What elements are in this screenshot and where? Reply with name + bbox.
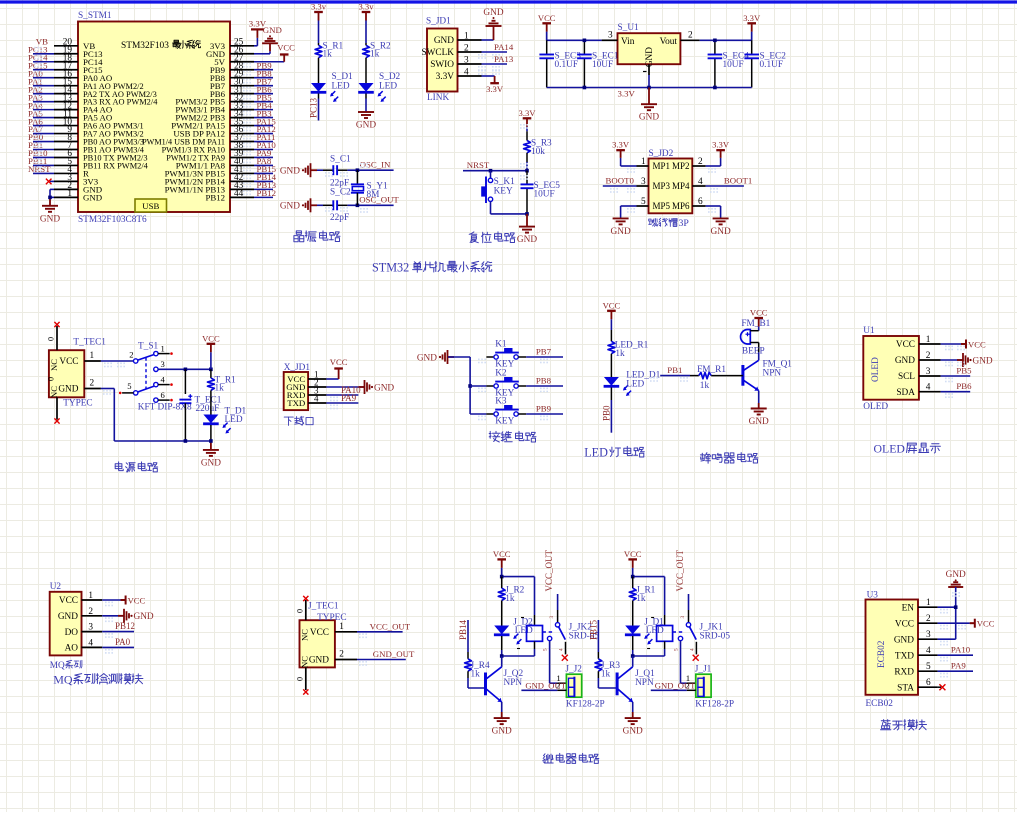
led J_D1 (632, 612, 634, 626)
mcu U S_STM1 body (78, 22, 230, 213)
title relay circuit (544, 754, 546, 756)
svg-text:SCL: SCL (898, 372, 915, 382)
svg-text:LED: LED (225, 415, 243, 425)
ground for mcu pins 1-2 (42, 205, 58, 207)
wire + net label PA4 (left pin 12) (33, 109, 54, 111)
ground right of mq (118, 615, 124, 617)
key switch K1 (486, 356, 494, 358)
resistor T_R1 1k (210, 369, 212, 378)
svg-text:5: 5 (543, 648, 549, 651)
power 3.3V right of regulator (747, 22, 756, 24)
svg-text:KEY: KEY (494, 186, 513, 196)
svg-text:VCC: VCC (603, 300, 621, 310)
svg-text:MP2: MP2 (672, 161, 690, 171)
ground below regulator (648, 88, 650, 105)
label jumper 3P (649, 219, 651, 221)
wire + net label PB5 (right pin 32) (254, 101, 273, 103)
svg-text:TXD: TXD (287, 398, 305, 408)
wire + net label PB14 (right pin 42) (254, 180, 273, 182)
svg-text:VCC_OUT: VCC_OUT (370, 622, 411, 632)
svg-text:J_J1: J_J1 (695, 665, 712, 675)
svg-text:NPN: NPN (763, 369, 782, 379)
svg-text:PB5: PB5 (956, 366, 972, 376)
svg-text:PA9: PA9 (341, 393, 357, 403)
wire base J_R4 (467, 678, 469, 688)
svg-text:4: 4 (926, 646, 931, 656)
svg-text:RXD: RXD (894, 667, 914, 677)
capacitor S_EC4 10UF (714, 40, 716, 54)
svg-text:4: 4 (464, 68, 469, 78)
wire + net label PB9 (526, 413, 563, 415)
ground above S_JD1 pin1 (493, 26, 495, 33)
wire bottom rail (547, 87, 752, 89)
svg-text:USB: USB (142, 201, 159, 211)
ground buzzer (758, 403, 760, 409)
svg-text:44: 44 (234, 189, 244, 199)
wire + net label PC14 (left pin 18) (33, 61, 54, 63)
wire X_JD1 pin1 to VCC (326, 378, 338, 380)
mq U2 body (50, 592, 82, 656)
wire + net label PA6 (left pin 10) (33, 125, 54, 127)
wire led/coil bottom join J_R2 (501, 650, 503, 656)
key switch K3 (470, 413, 486, 415)
svg-text:PB15: PB15 (588, 619, 598, 640)
svg-text:K1: K1 (495, 339, 507, 349)
svg-text:4: 4 (88, 638, 93, 648)
svg-text:K3: K3 (495, 396, 507, 406)
svg-text:PB11 RX PWM2/4: PB11 RX PWM2/4 (83, 162, 149, 171)
svg-text:GND: GND (895, 356, 915, 366)
relay coil J_JK1 SRD-05 (664, 615, 666, 626)
net label BOOT1 (706, 185, 744, 187)
transistor J_Q2 NPN (484, 673, 487, 696)
ground right of X_JD1 (359, 386, 365, 388)
svg-text:10UF: 10UF (534, 189, 555, 199)
svg-text:2: 2 (926, 614, 931, 624)
wire + net label PA8 (right pin 40) (254, 164, 273, 166)
net label PB12 wire (102, 631, 134, 633)
svg-text:PB12: PB12 (115, 621, 135, 631)
power VCC led circuit (607, 310, 616, 312)
svg-text:3: 3 (88, 623, 93, 633)
svg-text:GND: GND (973, 356, 993, 366)
svg-text:S_JD2: S_JD2 (649, 149, 674, 159)
power VCC relay J_R1 (628, 558, 637, 560)
power VCC for T_R1 (207, 343, 216, 345)
svg-text:SDA: SDA (896, 388, 915, 398)
svg-text:AO: AO (65, 644, 79, 654)
button bus wire (469, 357, 471, 414)
svg-text:22pF: 22pF (330, 213, 349, 223)
svg-text:TYPEC: TYPEC (63, 398, 92, 408)
svg-text:1k: 1k (615, 349, 625, 359)
svg-text:BOOT0: BOOT0 (606, 176, 635, 186)
svg-text:5: 5 (674, 648, 680, 651)
svg-text:3: 3 (926, 367, 931, 377)
junction dots regulator rails (583, 39, 587, 43)
svg-text:GND: GND (134, 612, 154, 622)
wire S_R1 to S_D1 (318, 60, 320, 79)
wire + net label PB7 (526, 356, 563, 358)
wire + net label PC13 (left pin 19) (33, 53, 54, 55)
svg-text:220uF: 220uF (196, 404, 220, 414)
svg-text:GND: GND (946, 570, 966, 580)
svg-text:1: 1 (339, 622, 344, 632)
wire bt EN/GND to ground (955, 587, 957, 639)
J_TEC1 bottom pin 0 (305, 667, 307, 690)
svg-text:S_C1: S_C1 (330, 155, 351, 165)
resistor FM_R1 1k (690, 375, 699, 377)
svg-text:NPN: NPN (504, 678, 523, 688)
svg-text:VCC: VCC (128, 595, 146, 605)
T_TEC1 top pin 0 (56, 326, 58, 350)
ground power circuit (210, 441, 212, 450)
svg-text:STM32F103: STM32F103 (121, 41, 169, 51)
svg-text:T_TEC1: T_TEC1 (73, 337, 106, 347)
svg-text:PB1: PB1 (667, 365, 682, 375)
ground relay J_Q1 (625, 717, 641, 719)
net label PA9 (bt) (938, 670, 973, 672)
wire + net label PA5 (left pin 11) (33, 117, 54, 119)
crystal S_Y1 8M (356, 170, 358, 184)
svg-text:4: 4 (559, 648, 565, 651)
power 3.3v for S_R2 (362, 11, 371, 13)
wire mq pin2 to GND (102, 615, 124, 617)
net label PA14 wire (482, 51, 508, 53)
svg-text:GND: GND (263, 25, 282, 35)
J_TEC1 pin1 VCC_OUT (335, 631, 357, 633)
wire + net label PA11 (right pin 37) (254, 141, 273, 143)
svg-text:PB12: PB12 (205, 192, 225, 202)
rotated net label PB14 wire (467, 620, 469, 641)
capacitor S_EC3 0.1UF (546, 40, 548, 54)
svg-text:5: 5 (127, 381, 131, 391)
svg-text:1: 1 (926, 598, 931, 608)
wire S_R2 to S_D2 (365, 60, 367, 79)
wire + net label PB9 (right pin 28) (254, 69, 273, 71)
svg-text:Vin: Vin (621, 37, 635, 47)
led T_D1 (210, 399, 212, 415)
svg-text:6: 6 (161, 390, 166, 400)
svg-text:TXD: TXD (895, 651, 914, 661)
resistor J_R3 1k (base) (597, 652, 599, 659)
net label PB1 wire (660, 375, 690, 377)
ground relay J_Q2 (494, 717, 510, 719)
svg-text:6: 6 (698, 197, 703, 207)
svg-text:2: 2 (90, 379, 95, 389)
svg-text:PB6: PB6 (956, 381, 972, 391)
svg-text:S_D2: S_D2 (379, 72, 401, 82)
title buzzer circuit (700, 454, 704, 456)
svg-text:GND: GND (356, 121, 376, 131)
svg-text:1k: 1k (215, 384, 225, 394)
wire bt VCC (938, 622, 970, 624)
svg-text:4: 4 (926, 383, 931, 393)
svg-text:1k: 1k (601, 669, 611, 679)
svg-text:3.3V: 3.3V (486, 84, 504, 94)
wire reset bottom rail (491, 213, 528, 215)
svg-text:VCC: VCC (59, 596, 78, 606)
J_TEC1 pin2 GND_OUT (335, 659, 357, 661)
svg-text:PA0: PA0 (115, 637, 131, 647)
power VCC left of regulator (542, 22, 551, 24)
svg-text:GND: GND (711, 227, 731, 237)
svg-text:4: 4 (690, 648, 696, 651)
svg-text:GND: GND (58, 612, 78, 622)
svg-text:3: 3 (608, 31, 613, 41)
svg-text:GND_OUT: GND_OUT (525, 680, 566, 690)
mcu pin 3 no-connect (50, 180, 54, 182)
svg-text:NC: NC (49, 359, 59, 371)
transistor FM_Q1 NPN (741, 365, 744, 386)
svg-text:GND: GND (83, 192, 102, 202)
svg-text:6: 6 (926, 678, 931, 688)
capacitor S_C2 22pF (317, 204, 323, 206)
capacitor S_EC2 0.1UF (751, 40, 753, 54)
wire J_JK2 NO contact to terminal (549, 641, 551, 684)
power VCC buzzer (754, 317, 763, 319)
wire + net label PA15 (right pin 35) (254, 125, 273, 127)
svg-text:GND: GND (639, 113, 659, 123)
wire + net label PB3 (right pin 34) (254, 117, 273, 119)
wire relay top rail J_R2 (501, 568, 503, 577)
wire + net label PA10 (right pin 38) (254, 149, 273, 151)
svg-text:3.3v: 3.3v (311, 2, 327, 12)
svg-text:3.3V: 3.3V (436, 72, 455, 82)
wire mq pin1 to VCC (102, 599, 120, 601)
svg-text:LED: LED (332, 82, 350, 92)
net label PA9 (X_JD1) (326, 402, 358, 404)
svg-text:0: 0 (296, 677, 305, 681)
svg-text:LED: LED (646, 626, 664, 636)
net label PB6 wire (941, 391, 971, 393)
wire emitter to ground (758, 391, 760, 403)
ground reset (526, 214, 528, 227)
svg-text:NPN: NPN (635, 678, 654, 688)
wire + net label PA2 (left pin 14) (33, 93, 54, 95)
led S_D1 (318, 79, 320, 84)
svg-text:LED: LED (584, 446, 608, 460)
connector S_JD1 body (427, 29, 458, 92)
wire base J_R3 (597, 678, 599, 688)
wire top rail right (700, 39, 752, 41)
svg-text:GND: GND (645, 47, 655, 67)
svg-text:3: 3 (926, 630, 931, 640)
svg-text:FM_R1: FM_R1 (697, 365, 726, 375)
svg-text:1: 1 (67, 189, 72, 199)
regulator pin 3 Vin (602, 39, 618, 41)
svg-text:2: 2 (339, 650, 344, 660)
svg-text:VCC_OUT: VCC_OUT (544, 549, 554, 591)
svg-text:1k: 1k (471, 669, 481, 679)
svg-text:GND: GND (517, 235, 537, 245)
svg-text:3P: 3P (678, 218, 689, 229)
svg-text:PB7: PB7 (536, 347, 552, 357)
svg-text:VCC: VCC (624, 549, 642, 559)
wire X_JD1 pin2 to GND (326, 386, 364, 388)
svg-text:4: 4 (161, 374, 166, 384)
svg-text:MQ: MQ (50, 661, 65, 671)
svg-text:2: 2 (698, 157, 703, 167)
relay coil J_JK2 SRD-05 (534, 615, 536, 626)
usb box on mcu (135, 199, 167, 212)
wire + net label PB0 (left pin 8) (33, 141, 54, 143)
svg-text:GND_OUT: GND_OUT (373, 649, 415, 659)
oled U1 body (863, 336, 919, 400)
capacitor S_EC5 10UF (526, 171, 528, 185)
svg-text:8M: 8M (367, 190, 380, 200)
svg-text:STM32: STM32 (372, 261, 409, 275)
no-connect bt STA (938, 686, 941, 688)
svg-text:MP3: MP3 (653, 181, 671, 191)
svg-text:STM32F103C8T6: STM32F103C8T6 (78, 215, 147, 225)
relay switch J_JK1 (688, 594, 690, 610)
resistor J_R1 1k (632, 577, 634, 589)
svg-text:1: 1 (88, 591, 93, 601)
svg-text:U2: U2 (50, 582, 62, 592)
wire OSC_IN (347, 169, 393, 171)
T_TEC1 bottom pin 0 (56, 397, 58, 419)
wire + net label PB6 (right pin 31) (254, 93, 273, 95)
resistor J_R2 1k (501, 577, 503, 589)
svg-text:0: 0 (47, 377, 56, 381)
svg-text:U1: U1 (863, 326, 875, 336)
svg-text:GND: GND (40, 214, 60, 224)
svg-text:GND: GND (201, 458, 221, 468)
svg-text:S_STM1: S_STM1 (78, 11, 112, 21)
regulator pin 1 GND stem (648, 64, 650, 75)
wire relay top rail J_R1 (632, 568, 634, 577)
wire led/coil bottom join J_R1 (632, 650, 634, 656)
wire emitter to ground J_Q1 (632, 702, 634, 712)
wire + net label PA9 (right pin 39) (254, 156, 273, 158)
svg-text:Vout: Vout (660, 37, 678, 47)
svg-text:VCC: VCC (538, 13, 556, 23)
wire + net label PB8 (right pin 29) (254, 77, 273, 79)
wire + net label PB13 (right pin 43) (254, 188, 273, 190)
wire pin2 to bottom rail (101, 388, 114, 390)
svg-text:SWIO: SWIO (430, 60, 454, 70)
title button circuit (489, 433, 491, 435)
svg-text:LINK: LINK (427, 93, 449, 103)
svg-text:3.3V: 3.3V (612, 140, 630, 150)
led J_D2 (501, 612, 503, 626)
resistor S_R2 1k (365, 43, 367, 45)
svg-text:GND: GND (309, 656, 329, 666)
svg-text:PA14: PA14 (494, 42, 514, 52)
svg-text:PA10: PA10 (951, 645, 971, 655)
capacitor T_EC1 220uF (184, 369, 186, 394)
svg-text:X_JD1: X_JD1 (284, 363, 311, 373)
capacitor S_C1 22pF (317, 169, 323, 171)
svg-text:3.3V: 3.3V (618, 89, 636, 99)
wire + rotated net label PB0 (610, 400, 612, 433)
svg-text:OLED: OLED (863, 402, 888, 412)
svg-text:3: 3 (464, 56, 469, 66)
svg-text:4: 4 (314, 394, 319, 404)
svg-text:VCC: VCC (310, 628, 329, 638)
T_TEC1 pin 2 GND (84, 388, 101, 390)
svg-text:KF128-2P: KF128-2P (695, 700, 734, 710)
svg-text:GND: GND (749, 417, 769, 427)
power 3.3V below S_JD1 pin4 (490, 82, 499, 84)
svg-text:S_JD1: S_JD1 (426, 17, 451, 27)
svg-text:DO: DO (65, 628, 79, 638)
svg-text:S_U1: S_U1 (618, 23, 640, 33)
net label PA10 (bt) (938, 654, 973, 656)
wire + net label PB11 (left pin 5) (33, 164, 54, 166)
svg-text:U3: U3 (867, 591, 879, 601)
svg-text:1: 1 (464, 32, 469, 42)
svg-text:3.3V: 3.3V (712, 140, 730, 150)
svg-text:NRST: NRST (467, 160, 490, 170)
wire emitter to ground J_Q2 (501, 702, 503, 712)
svg-text:VCC: VCC (202, 333, 220, 343)
wire S_JD1 pin1 to GND (482, 39, 494, 41)
led S_D2 (365, 79, 367, 84)
wire NRST (463, 170, 527, 172)
svg-text:MQ: MQ (53, 673, 73, 687)
svg-text:STA: STA (897, 683, 914, 693)
key switch K2 (470, 385, 486, 387)
svg-text:2: 2 (688, 31, 693, 41)
svg-text:1k: 1k (505, 594, 515, 604)
svg-text:MP6: MP6 (672, 201, 690, 211)
svg-text:2: 2 (129, 349, 133, 359)
svg-text:OLED: OLED (874, 442, 906, 456)
svg-text:1: 1 (641, 157, 646, 167)
svg-text:1k: 1k (700, 381, 710, 391)
wire oled pin1 to VCC (941, 343, 961, 345)
svg-text:LED: LED (626, 380, 644, 390)
svg-text:3.3V: 3.3V (743, 13, 761, 23)
wire + net label PB7 (right pin 30) (254, 85, 273, 87)
svg-text:0.1UF: 0.1UF (555, 60, 579, 70)
svg-text:MP4: MP4 (672, 181, 690, 191)
svg-text:EN: EN (902, 603, 915, 613)
svg-text:VCC: VCC (330, 357, 348, 367)
svg-text:3: 3 (680, 616, 686, 619)
svg-text:BEEP: BEEP (742, 347, 765, 357)
svg-text:1k: 1k (636, 594, 646, 604)
svg-text:BOOT1: BOOT1 (724, 176, 752, 186)
svg-text:LED: LED (379, 82, 397, 92)
wire + net label PA12 (right pin 36) (254, 133, 273, 135)
svg-text:VCC: VCC (896, 340, 915, 350)
svg-text:GND: GND (374, 383, 394, 393)
svg-text:2: 2 (464, 44, 469, 54)
T_TEC1 pin 1 VCC (84, 360, 101, 362)
power VCC at mcu pin 27 (254, 61, 284, 63)
no-connect on J_JK1 NC contact (693, 655, 699, 661)
power 3.3V at mcu pin 25 (254, 45, 257, 47)
wire + net label PA3 (left pin 13) (33, 101, 54, 103)
svg-text:NRST: NRST (28, 164, 51, 174)
svg-text:GND: GND (894, 635, 914, 645)
rotated net label PB15 wire (597, 620, 599, 641)
svg-text:GND: GND (483, 8, 503, 18)
svg-text:0: 0 (47, 337, 56, 341)
svg-text:KEY: KEY (495, 416, 514, 426)
sheet border top (0, 0, 1017, 3)
wire S_JD1 pin4 to 3.3V (482, 75, 495, 77)
svg-text:MP1: MP1 (653, 161, 671, 171)
svg-text:GND: GND (58, 385, 78, 395)
svg-text:4: 4 (698, 177, 703, 187)
wire pin1 to switch (101, 360, 134, 362)
svg-text:5: 5 (926, 662, 931, 672)
connector T_TEC1 body (49, 350, 84, 397)
